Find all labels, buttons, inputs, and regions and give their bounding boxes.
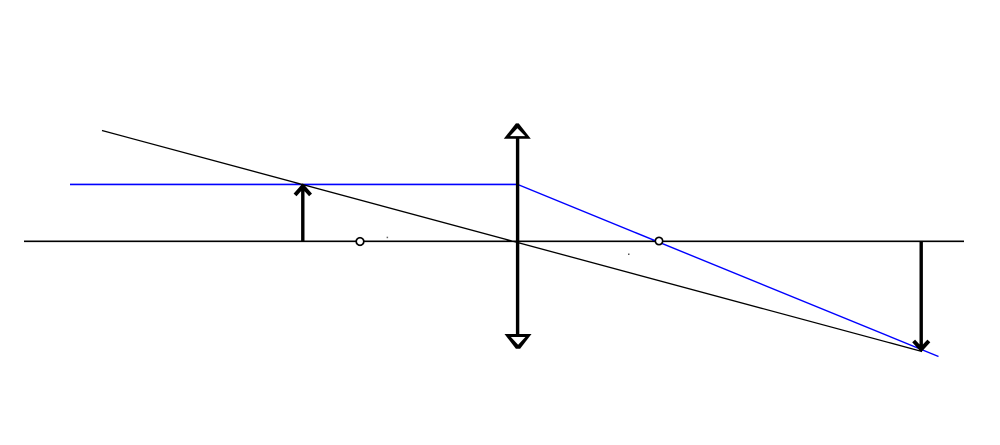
refracted ray through far focal point (blue) — [518, 184, 939, 356]
incident ray parallel to axis (blue) — [70, 183, 518, 185]
image arrow stem — [920, 241, 923, 348]
focal point F (left, open circle) — [356, 238, 364, 246]
stray speck below axis right of lens — [628, 254, 630, 256]
optical axis — [24, 240, 964, 242]
image arrowhead — [912, 340, 930, 353]
lens L1 top arrowhead (open triangle) — [504, 123, 531, 138]
chief ray through lens centre (black) — [102, 131, 922, 352]
object arrow stem — [301, 186, 304, 241]
object arrowhead — [294, 183, 312, 196]
lens L1 stem — [516, 137, 519, 335]
focal point F' (right, open circle) — [655, 237, 662, 244]
lens L1 bottom arrowhead (open triangle) — [505, 334, 532, 349]
stray speck near F — [387, 237, 389, 239]
